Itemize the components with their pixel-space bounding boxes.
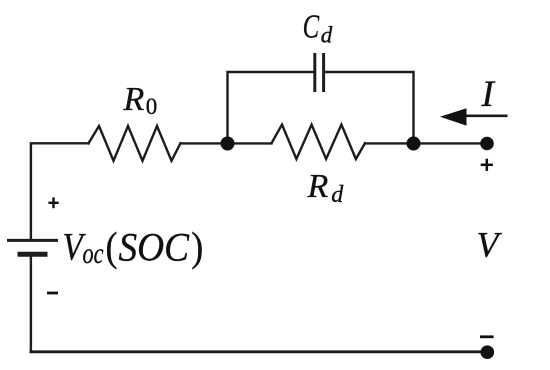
wire Rd to node B (365, 142, 414, 144)
wire node B to positive terminal (414, 142, 488, 144)
wire left rail bottom (battery - to bottom-left corner) (30, 255, 32, 352)
wire node A up to top branch (228, 72, 314, 143)
svg-text:V: V (477, 224, 503, 264)
label Voc(SOC) (63, 224, 204, 270)
svg-text:R: R (307, 168, 329, 205)
label Rd (307, 168, 345, 208)
svg-text:d: d (321, 22, 333, 47)
battery minus polarity mark (47, 292, 58, 295)
current arrow I (440, 108, 508, 125)
node B junction dot (407, 137, 421, 151)
label Cd (303, 8, 333, 47)
terminal dot negative (481, 345, 495, 359)
wire left rail top (battery + to top-left corner) (31, 143, 89, 240)
terminal minus mark (480, 335, 494, 338)
node A junction dot (221, 137, 235, 151)
battery Voc short plate (18, 252, 48, 257)
svg-text:d: d (331, 182, 344, 208)
terminal plus mark (481, 159, 493, 171)
svg-text:oc: oc (83, 237, 104, 270)
battery plus polarity mark (48, 197, 58, 208)
svg-text:0: 0 (146, 94, 158, 119)
capacitor Cd left plate (313, 55, 316, 91)
wire node A to resistor Rd (228, 142, 272, 144)
wire R0 to node A (181, 142, 228, 144)
terminal dot positive (480, 137, 494, 151)
resistor R0 (89, 126, 181, 161)
svg-text:I: I (481, 74, 496, 115)
svg-text:R: R (123, 81, 145, 118)
wire bottom rail (31, 350, 487, 353)
battery Voc long plate (7, 239, 58, 242)
svg-text:): ) (191, 224, 203, 270)
label R0 (123, 81, 158, 119)
resistor Rd (272, 125, 366, 159)
wire Cd to right drop (325, 72, 413, 143)
svg-text:(: ( (106, 224, 118, 270)
svg-text:C: C (303, 8, 320, 45)
svg-text:SOC: SOC (119, 224, 191, 269)
capacitor Cd right plate (322, 55, 325, 91)
